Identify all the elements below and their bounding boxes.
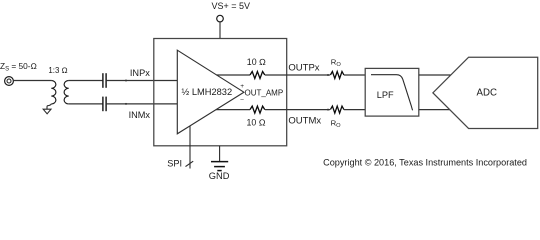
svg-text:Copyright © 2016, Texas Instru: Copyright © 2016, Texas Instruments Inco… [323,157,527,167]
wire Ro to LPF (top) [344,74,365,76]
wire resistor to OUTMx / Ro (bottom) [265,109,330,111]
resistor 10 Ohm (top) [250,72,265,79]
svg-text:OUTMx: OUTMx [288,115,321,126]
wire Ro to LPF (bottom) [344,109,365,111]
junction dot OUTPx [327,74,329,76]
svg-text:OUT_AMP: OUT_AMP [245,89,284,98]
chip box U1 LMH2832 [154,39,287,146]
svg-text:GND: GND [209,171,230,181]
op-amp triangle (1/2 LMH2832) [177,50,244,134]
svg-text:OUTPx: OUTPx [288,62,319,73]
LPF box [365,68,419,116]
resistor Ro (bottom) [330,106,343,113]
wire source to transformer primary [13,80,51,82]
wire LPF to ADC (top) [419,74,451,76]
ADC pentagon [433,57,538,128]
svg-text:INMx: INMx [129,110,151,120]
wire resistor to OUTPx / Ro (top) [265,74,330,76]
ground GND bars [211,162,228,171]
wire opamp to 10 Ohm resistor (bottom) [216,109,250,111]
wire LPF to ADC (bottom) [419,109,450,111]
GND stem wire [219,146,221,162]
resistor 10 Ohm (bottom) [250,106,265,113]
svg-text:10 Ω: 10 Ω [247,57,266,67]
wire opamp to 10 Ohm resistor (top) [217,74,251,76]
wire primary bottom to ground [47,104,51,109]
transformer T1 secondary winding [64,81,69,104]
svg-text:½ LMH2832: ½ LMH2832 [182,87,233,97]
svg-text:1:3 Ω: 1:3 Ω [48,66,67,75]
source VS (50 ohm) [5,77,14,86]
SPI bus slash [186,161,194,166]
svg-text:INPx: INPx [130,68,150,78]
supply stem wire [219,22,221,38]
junction dot INMx [125,103,127,105]
junction dot INPx [125,80,127,82]
svg-text:SPI: SPI [167,158,182,168]
ground (transformer primary) [43,109,51,114]
resistor Ro (top) [330,72,343,79]
LPF response curve [371,75,413,111]
wire capacitor to INPx pin [107,80,178,82]
svg-text:ADC: ADC [477,87,497,98]
svg-text:LPF: LPF [377,90,394,100]
junction dot OUTMx [327,109,329,111]
wire secondary bottom to capacitor [69,103,103,105]
svg-text:10 Ω: 10 Ω [247,117,266,127]
transformer T1 primary winding [51,81,56,104]
capacitor (INMx line) [103,97,106,112]
supply terminal circle [217,15,224,22]
wire capacitor to INMx pin [107,103,178,105]
capacitor (INPx line) [103,73,106,88]
wire secondary top to capacitor [69,80,103,82]
svg-text:VS+ = 5V: VS+ = 5V [212,1,251,11]
SPI pin wire [189,126,191,169]
